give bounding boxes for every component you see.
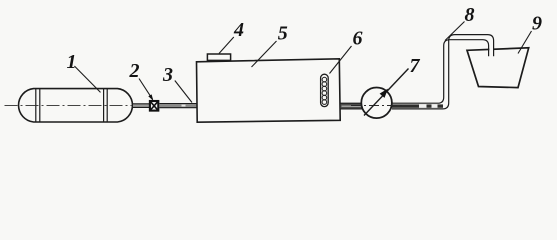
gas cylinder 1 body [19,89,133,122]
gas meter 7 [361,88,392,119]
leader 6 [330,46,352,74]
pipe 8 stub gap over bucket rim [489,46,493,56]
bucket 9 [467,48,529,88]
svg-text:7: 7 [410,55,421,77]
leader 4 [219,37,234,54]
meter centerline [351,105,402,107]
pipe 3 valve to chamber [159,104,197,108]
svg-text:6: 6 [353,28,363,50]
svg-text:2: 2 [129,60,140,82]
leader 8 [445,22,465,41]
svg-text:5: 5 [278,23,288,45]
svg-text:1: 1 [67,51,77,73]
svg-text:8: 8 [465,4,475,26]
svg-text:4: 4 [233,19,244,41]
wire pipe cylinder to valve [133,104,150,108]
pipe chamber to meter [341,103,363,109]
cylinder weld line right pair [103,89,105,122]
svg-text:9: 9 [532,13,542,35]
leader 2 with arrowhead [139,79,153,101]
leader 5 [252,41,277,67]
cylinder weld line left pair [35,89,37,122]
leader 9 [518,31,532,54]
leader 1 [74,66,100,92]
leader 3 [175,81,192,103]
valve 2 [150,101,158,111]
chamber 5 [197,59,341,122]
pipe meter to riser band [392,104,443,107]
hatch 4 on chamber top [207,54,230,60]
capsule element 6 [321,74,329,106]
meter arrow / leader 7 [364,69,409,116]
svg-text:3: 3 [162,64,173,86]
riser pipe 8 outer line [392,35,494,109]
riser pipe 8 inner line [392,40,489,103]
cylinder centerline [5,105,132,107]
